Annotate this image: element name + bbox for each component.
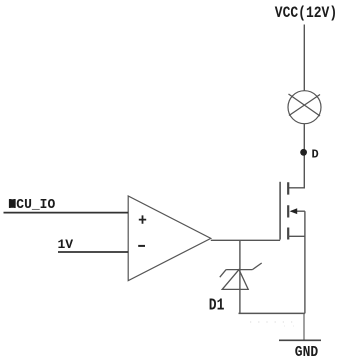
- svg-text:MCU_IO: MCU_IO: [9, 197, 56, 212]
- svg-text:VCC(12V): VCC(12V): [275, 5, 337, 22]
- svg-text:D: D: [312, 147, 319, 161]
- svg-text:D1: D1: [209, 295, 225, 315]
- svg-text:1V: 1V: [58, 237, 74, 252]
- svg-text:GND: GND: [295, 345, 318, 359]
